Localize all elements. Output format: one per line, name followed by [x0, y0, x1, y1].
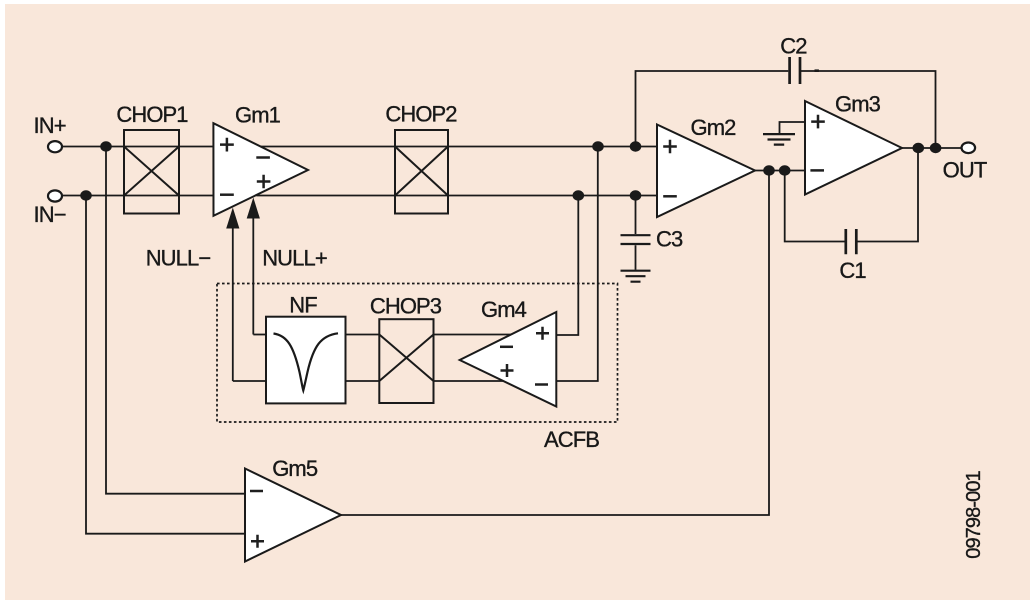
svg-text:IN−: IN− — [34, 202, 66, 227]
svg-text:CHOP3: CHOP3 — [370, 294, 442, 319]
svg-text:ACFB: ACFB — [544, 427, 599, 452]
svg-text:Gm2: Gm2 — [691, 115, 737, 140]
svg-text:CHOP2: CHOP2 — [385, 102, 457, 127]
svg-text:Gm3: Gm3 — [835, 92, 881, 117]
svg-text:NULL+: NULL+ — [262, 246, 327, 271]
svg-text:Gm5: Gm5 — [272, 456, 318, 481]
svg-text:09798-001: 09798-001 — [963, 470, 985, 558]
svg-text:NULL−: NULL− — [146, 246, 211, 271]
svg-text:Gm1: Gm1 — [235, 103, 281, 128]
svg-text:IN+: IN+ — [34, 113, 66, 138]
svg-text:CHOP1: CHOP1 — [116, 102, 188, 127]
svg-text:OUT: OUT — [943, 158, 987, 183]
svg-text:C3: C3 — [656, 227, 683, 252]
svg-text:C1: C1 — [839, 258, 866, 283]
svg-text:Gm4: Gm4 — [481, 297, 527, 322]
svg-text:C2: C2 — [780, 34, 807, 59]
svg-text:NF: NF — [289, 293, 317, 318]
